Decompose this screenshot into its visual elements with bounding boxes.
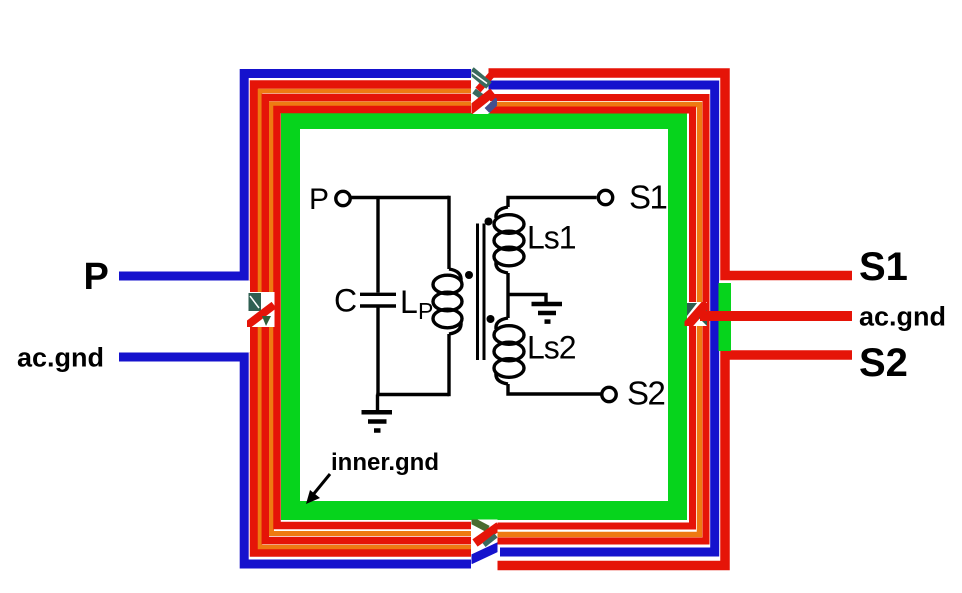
right-half inner cluster: red inner (490, 110, 693, 526)
dot Ls1 (485, 218, 493, 226)
svg-text:P: P (309, 183, 329, 216)
cluster stripe red C (innermost) (277, 110, 471, 526)
cluster stripe orange B (272, 104, 472, 534)
inner.gnd green ring (281, 113, 687, 520)
inductor Ls1 loop 1 (494, 215, 524, 234)
wire: C branch vertical top (376, 198, 379, 293)
inductor Lp loop 2 (433, 292, 462, 311)
right-half inner cluster: orange (490, 105, 700, 535)
wire: S1 to Ls1 (508, 198, 597, 208)
wire: Ls1 bottom to Ls2 top (center tap) (506, 273, 509, 318)
capacitor C plates (360, 293, 396, 296)
transformer core line 2 (483, 224, 486, 361)
inductor Ls2 loop 3 (494, 359, 524, 378)
left-middle crossover (245, 292, 280, 327)
inductor Ls2 loop 1 (494, 326, 524, 345)
svg-text:Ls1: Ls1 (527, 220, 576, 256)
cluster stripe red B (265, 98, 471, 541)
primary winding P (blue) right half (486, 85, 715, 552)
inductor Lp loop 3 (433, 309, 462, 328)
svg-text:P: P (418, 298, 433, 324)
wire: Lp branch vertical top (447, 196, 450, 269)
ground (left) stub (376, 395, 379, 412)
primary winding P (blue) top-left half (119, 74, 471, 277)
ac.gnd lead (red, right) crossing blue (700, 311, 852, 321)
inner.gnd arrow (312, 474, 330, 496)
svg-text:P: P (84, 256, 109, 298)
svg-text:S2: S2 (859, 341, 908, 385)
svg-text:inner.gnd: inner.gnd (331, 449, 439, 476)
cluster stripe orange A (260, 91, 471, 547)
dot Lp (465, 271, 473, 279)
inductor Ls2 loop 2 (494, 342, 524, 361)
dot Ls2 (487, 315, 495, 323)
wire: Ls2 bottom to S2 terminal (508, 384, 601, 394)
inductor Lp hooks (449, 269, 461, 281)
wire: center tap to ground (508, 295, 546, 304)
inductor Ls2 hooks (496, 318, 508, 329)
blue left interruption between P and ac.gnd leads (238, 281, 250, 352)
svg-text:ac.gnd: ac.gnd (859, 302, 946, 332)
wire: bottom-left node (376, 393, 449, 396)
transformer core line 1 (476, 224, 479, 361)
left/top/bottom cluster stripe red A (254, 85, 471, 553)
terminal S2 circle (602, 387, 616, 401)
wire: C branch vertical bottom (376, 308, 379, 395)
terminal S1 circle (598, 190, 612, 204)
top-center crossover (469, 63, 498, 114)
ground symbol right (center tap) bars (532, 304, 563, 322)
secondary outer red, S2 lead + bottom-right half (497, 355, 852, 566)
svg-text:Ls2: Ls2 (527, 330, 576, 366)
svg-text:L: L (400, 284, 418, 320)
right-half inner cluster: red outer (490, 98, 706, 542)
red outer right interruption between S1/S2 leads (719, 281, 731, 351)
inductor Ls1 hooks (496, 207, 508, 218)
svg-text:S1: S1 (859, 245, 908, 289)
ac.gnd green tab (719, 283, 732, 351)
secondary outer red, S1 lead + top-right half (488, 73, 852, 276)
primary winding P (blue) bottom-left half to ac.gnd lead (119, 357, 471, 564)
svg-text:ac.gnd: ac.gnd (17, 343, 104, 373)
inductor Ls1 loop 2 (494, 231, 524, 250)
svg-text:S2: S2 (627, 375, 665, 412)
ground symbol left bars (362, 412, 393, 430)
svg-text:S1: S1 (629, 179, 667, 216)
inductor Ls1 loop 3 (494, 247, 524, 266)
wire: P terminal to top node (351, 196, 449, 199)
inductor Lp loop 1 (433, 275, 462, 294)
bottom-center crossover (470, 520, 500, 572)
right-middle crossover (686, 302, 707, 327)
terminal P circle (336, 191, 350, 205)
wire: Lp branch vertical bottom (447, 334, 450, 396)
svg-text:C: C (334, 283, 357, 319)
